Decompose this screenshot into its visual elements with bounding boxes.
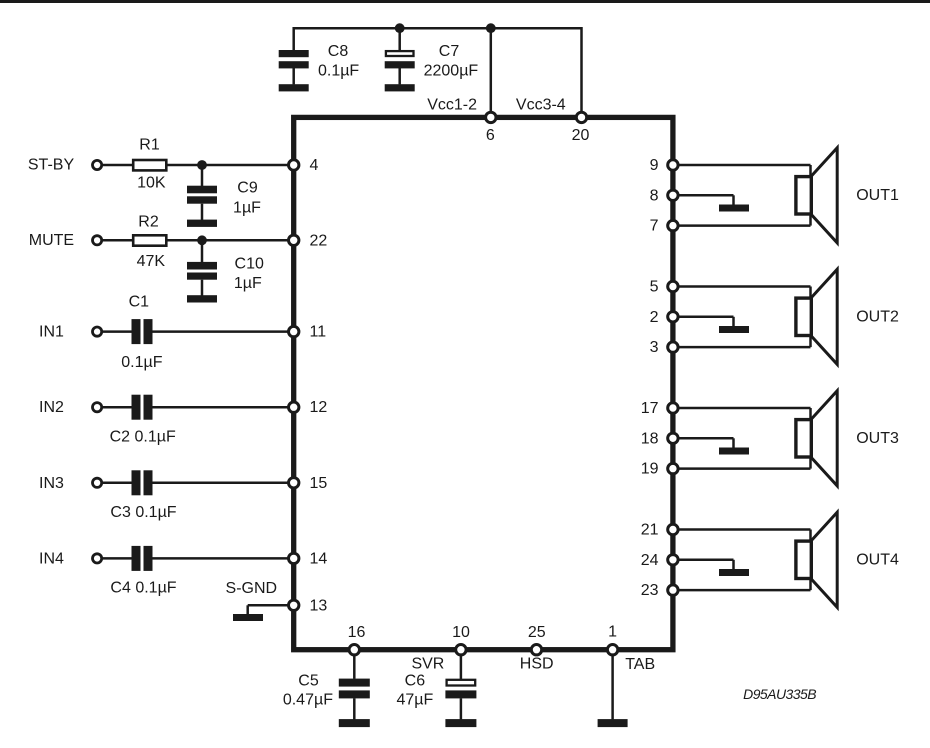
svg-text:SVR: SVR [411,656,444,673]
svg-text:16: 16 [348,624,366,641]
svg-text:2200µF: 2200µF [424,63,479,80]
svg-text:C4 0.1µF: C4 0.1µF [110,580,176,597]
svg-text:25: 25 [528,624,546,641]
svg-text:17: 17 [641,400,659,417]
svg-text:7: 7 [650,218,659,235]
svg-text:D95AU335B: D95AU335B [743,686,816,702]
svg-text:14: 14 [310,550,328,567]
svg-text:IN4: IN4 [39,550,64,567]
svg-text:C2 0.1µF: C2 0.1µF [110,428,176,445]
svg-text:HSD: HSD [520,656,554,673]
svg-text:18: 18 [641,430,659,447]
svg-text:R2: R2 [138,214,159,231]
svg-text:C1: C1 [129,294,150,311]
svg-text:4: 4 [310,157,319,174]
svg-text:47K: 47K [137,253,166,270]
svg-text:S-GND: S-GND [226,580,278,597]
svg-text:10: 10 [452,624,470,641]
svg-text:OUT1: OUT1 [856,187,899,204]
svg-text:1µF: 1µF [234,275,262,292]
svg-text:IN3: IN3 [39,475,64,492]
svg-text:15: 15 [310,475,328,492]
svg-text:0.1µF: 0.1µF [318,63,359,80]
svg-text:C10: C10 [235,255,264,272]
svg-text:C7: C7 [439,43,460,60]
svg-text:2: 2 [650,309,659,326]
svg-text:0.47µF: 0.47µF [283,692,333,709]
svg-text:OUT4: OUT4 [856,552,899,569]
svg-text:22: 22 [310,232,328,249]
svg-text:Vcc3-4: Vcc3-4 [516,97,566,114]
svg-text:TAB: TAB [625,656,655,673]
svg-text:C3 0.1µF: C3 0.1µF [110,504,176,521]
svg-text:IN2: IN2 [39,399,64,416]
svg-text:C8: C8 [328,43,349,60]
svg-text:19: 19 [641,461,659,478]
svg-text:23: 23 [641,582,659,599]
svg-text:1µF: 1µF [233,199,261,216]
svg-text:MUTE: MUTE [29,232,74,249]
svg-text:Vcc1-2: Vcc1-2 [427,97,477,114]
svg-text:24: 24 [641,552,659,569]
svg-text:R1: R1 [139,136,160,153]
svg-text:12: 12 [310,399,328,416]
svg-text:8: 8 [650,187,659,204]
svg-text:IN1: IN1 [39,324,64,341]
svg-text:9: 9 [650,157,659,174]
svg-text:C5: C5 [298,673,319,690]
svg-text:13: 13 [310,597,328,614]
svg-text:1: 1 [608,624,617,641]
svg-text:5: 5 [650,279,659,296]
svg-text:47µF: 47µF [397,692,434,709]
svg-text:ST-BY: ST-BY [28,156,75,173]
svg-text:3: 3 [650,339,659,356]
svg-text:OUT2: OUT2 [856,309,899,326]
svg-text:10K: 10K [137,174,166,191]
svg-text:21: 21 [641,522,659,539]
svg-text:20: 20 [572,127,590,144]
svg-text:OUT3: OUT3 [856,430,899,447]
svg-text:11: 11 [310,324,327,341]
svg-text:C9: C9 [237,179,258,196]
svg-text:0.1µF: 0.1µF [121,354,162,371]
svg-text:C6: C6 [405,673,426,690]
svg-text:6: 6 [486,127,495,144]
